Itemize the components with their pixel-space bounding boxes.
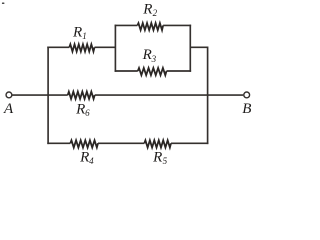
wire: box left edge — [114, 25, 116, 72]
stray mark top-left — [2, 3, 5, 5]
wire: box right edge — [189, 25, 191, 72]
wire: right vertical branch — [207, 47, 209, 145]
resistor R5 — [144, 140, 171, 147]
resistor R6 — [68, 92, 95, 99]
svg-text:2: 2 — [153, 8, 158, 18]
wire: box top right — [163, 24, 191, 26]
svg-text:R: R — [75, 102, 85, 118]
svg-text:3: 3 — [151, 54, 157, 64]
svg-text:A: A — [3, 101, 14, 117]
wire: left vertical branch — [47, 47, 49, 145]
wire: top branch to parallel box — [95, 46, 116, 48]
resistor R4 — [70, 140, 98, 147]
svg-text:4: 4 — [89, 156, 94, 166]
resistor R2 — [137, 23, 163, 30]
wire: middle right to terminal B — [95, 94, 244, 96]
svg-text:B: B — [242, 101, 251, 117]
wire: top branch left — [47, 46, 69, 48]
resistor R1 — [69, 44, 94, 51]
wire: middle left from terminal A — [12, 94, 68, 96]
svg-text:1: 1 — [82, 31, 87, 41]
svg-text:5: 5 — [163, 156, 168, 166]
resistor R3 — [138, 68, 167, 75]
wire: box bottom right — [167, 70, 192, 72]
terminal A — [6, 92, 12, 98]
svg-text:R: R — [142, 2, 152, 18]
svg-text:R: R — [152, 150, 162, 166]
wire: bottom branch right — [171, 142, 208, 144]
wire: box top left — [115, 24, 138, 26]
wire: stub from box to right vertical — [190, 46, 207, 48]
svg-text:R: R — [142, 47, 152, 63]
svg-text:R: R — [72, 24, 82, 40]
wire: bottom branch middle — [98, 142, 144, 144]
svg-text:R: R — [79, 150, 89, 166]
terminal B — [244, 92, 250, 98]
svg-text:6: 6 — [85, 108, 90, 118]
wire: bottom branch left — [47, 142, 70, 144]
wire: box bottom left — [115, 70, 138, 72]
